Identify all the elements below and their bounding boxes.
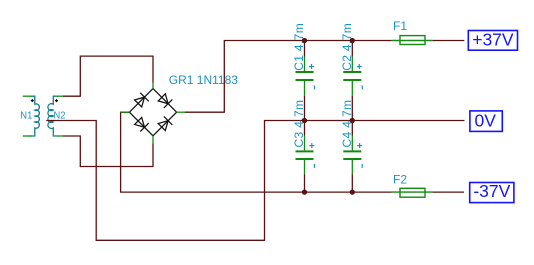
green stub left bridge node <box>121 111 130 113</box>
net label 0V <box>470 110 502 131</box>
fuse F2 <box>392 188 433 197</box>
wire bridge - output to bottom rail <box>121 112 392 192</box>
transformer TR1 winding N1 <box>29 96 39 136</box>
net label +37V <box>468 30 517 51</box>
junction C3 bottom rail <box>302 189 307 194</box>
junction C1/C3 mid rail <box>302 118 307 123</box>
svg-text:+37V: +37V <box>472 30 514 50</box>
svg-text:C1 4,7m: C1 4,7m <box>292 23 306 71</box>
wire N2 bottom to bridge AC bottom <box>63 136 153 167</box>
junction C2 top rail <box>350 38 355 43</box>
diode D3 (left to bottom) <box>135 117 149 131</box>
svg-text:GR1 1N1183: GR1 1N1183 <box>169 73 238 87</box>
wire N2 top to bridge AC top <box>63 56 153 96</box>
capacitor C2 <box>343 41 362 121</box>
wire center tap to 0V rail <box>46 121 464 241</box>
junction C4 bottom rail <box>350 189 355 194</box>
capacitor C4 <box>343 121 362 193</box>
wire bridge + output to top rail <box>185 41 392 113</box>
wire F2 to -37V <box>433 191 464 193</box>
svg-text:0V: 0V <box>474 110 496 130</box>
svg-text:C2 4,7m: C2 4,7m <box>340 23 354 71</box>
svg-text:F2: F2 <box>393 172 407 186</box>
net label -37V <box>470 181 514 202</box>
transformer N2 pin ends <box>57 96 64 136</box>
svg-text:C3 4,7m: C3 4,7m <box>292 100 306 148</box>
fuse F1 <box>392 36 433 45</box>
diode D4 (bottom to right) <box>158 116 172 130</box>
junction C1 top rail <box>302 38 307 43</box>
junction C2/C4 mid rail <box>350 118 355 123</box>
diode D2 (top to right) <box>158 94 172 108</box>
transformer N1 pin ends <box>23 96 32 136</box>
wire F1 to +37V <box>433 40 465 42</box>
transformer TR1 winding N2 (center tapped) <box>48 96 57 136</box>
svg-text:C4 4,7m: C4 4,7m <box>340 100 354 148</box>
transformer N2 polarity + <box>55 99 58 102</box>
svg-text:-37V: -37V <box>473 181 510 201</box>
capacitor C1 <box>296 41 315 121</box>
bridge rectifier GR1 diamond edges <box>129 89 176 136</box>
diode D1 (left to top) <box>135 93 149 107</box>
capacitor C3 <box>296 121 315 193</box>
svg-text:F1: F1 <box>393 19 407 33</box>
transformer N1 polarity + <box>31 99 34 102</box>
bridge pin stubs <box>121 83 185 144</box>
svg-text:N1: N1 <box>20 111 32 122</box>
